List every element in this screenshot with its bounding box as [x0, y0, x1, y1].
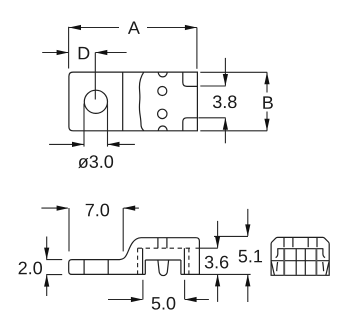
- label 3.8: [213, 95, 222, 108]
- dim ⌀3.0 arrowhead left: [72, 142, 84, 147]
- end view top tick 4: [316, 237, 318, 247]
- end view top tick 3: [307, 237, 309, 247]
- hole ⌀3.0 circle: [84, 90, 107, 113]
- dim ⌀3.0 leader left: [49, 143, 84, 145]
- side view notch edge tick 1: [157, 238, 159, 249]
- LABELS START: [19, 22, 273, 310]
- dim 3.6 arrowhead up: [215, 274, 220, 286]
- label D: [79, 47, 90, 59]
- end view right leg edge pair: [315, 249, 317, 276]
- dim 5.0 leader right: [185, 299, 209, 301]
- top view part outline: [69, 72, 198, 131]
- dim ⌀3.0 extension left: [83, 104, 85, 147]
- end view top tick 1: [283, 237, 285, 247]
- top edge notch arc: [158, 72, 167, 77]
- dim 7.0 left extension: [68, 208, 70, 251]
- dim 3.6 bottom extension: [200, 273, 251, 275]
- end view right foot arc: [326, 262, 329, 276]
- dim B bottom extension: [200, 130, 267, 132]
- dim 5.1 top arrow stem: [247, 209, 249, 236]
- side view outline: [69, 238, 200, 275]
- dim 3.8 bottom arrow stem: [224, 118, 226, 143]
- side view right leg outer edge: [183, 248, 185, 274]
- dim B arrowhead up: [264, 72, 269, 84]
- dim 3.6 top extension: [196, 247, 218, 249]
- label diameter 3.0: [78, 158, 88, 168]
- label A: [128, 22, 140, 34]
- dim 3.6 bottom arrow stem: [217, 275, 219, 302]
- end view right foot inner arc: [322, 262, 325, 271]
- dim 2.0 bottom arrow stem: [46, 275, 48, 296]
- dim 2.0 arrowhead up: [44, 275, 49, 287]
- hole center line: [94, 53, 96, 100]
- end view right hook: [323, 249, 325, 258]
- dim ⌀3.0 arrowhead right: [108, 142, 120, 147]
- dim B line upper: [266, 72, 268, 92]
- dim 7.0 leader left: [41, 207, 67, 209]
- dim 7.0 arrowhead right: [123, 206, 135, 211]
- dim A arrowhead left: [69, 25, 81, 30]
- dim D arrowhead right: [95, 50, 107, 55]
- side view hole edge tick 1: [83, 260, 85, 275]
- end view left hook: [276, 249, 278, 258]
- top view break line: [139, 72, 143, 131]
- dim ⌀3.0 leader right: [108, 143, 135, 145]
- side view hidden edge left: [137, 248, 139, 274]
- dim 5.0 right extension: [184, 280, 186, 300]
- end view tongue left edge: [295, 249, 297, 275]
- top view step edge line: [122, 72, 124, 131]
- dim D arrowhead left: [57, 50, 69, 55]
- label 5.0: [152, 297, 161, 310]
- side view plate underside hidden line: [138, 247, 192, 249]
- dim 7.0 right extension: [122, 208, 124, 251]
- small hole 2: [158, 109, 167, 118]
- dim 5.0 leader left: [108, 299, 142, 301]
- side view right leg inner edge: [180, 260, 182, 274]
- dim 2.0 arrowhead down: [44, 248, 49, 260]
- bottom edge notch arc: [158, 126, 167, 131]
- label B: [263, 96, 273, 108]
- side view notch edge tick 2: [166, 238, 168, 249]
- dim B line lower: [266, 112, 268, 131]
- dim B top extension: [200, 71, 267, 73]
- small hole 1: [158, 87, 167, 96]
- dim A line left segment: [69, 27, 119, 29]
- dim 5.1 arrowhead up: [245, 274, 250, 286]
- dim 5.0 left extension: [142, 280, 144, 300]
- dim 3.8 bottom extension: [198, 117, 225, 119]
- dim D leader left: [42, 52, 68, 54]
- dim 5.1 bottom arrow stem: [247, 275, 249, 302]
- label 2.0: [19, 262, 27, 275]
- dim 3.8 arrowhead down: [223, 74, 228, 86]
- dim 3.8 top extension: [200, 85, 225, 87]
- dim 7.0 arrowhead left: [57, 206, 69, 211]
- dim ⌀3.0 extension right: [107, 104, 109, 147]
- side view hole edge tick 2: [107, 260, 109, 275]
- dim D leader right: [95, 52, 126, 54]
- dim A arrowhead right: [185, 25, 197, 30]
- side view bar top edge behind legs: [145, 259, 181, 261]
- end view mid horizontal edge: [271, 260, 329, 262]
- dim 3.8 arrowhead up: [223, 118, 228, 130]
- label 5.1: [239, 250, 248, 263]
- dim 5.1 top extension: [214, 235, 248, 237]
- side view tongue: [158, 260, 169, 275]
- dim A left extension line: [68, 27, 70, 69]
- dim A line right segment: [147, 27, 197, 29]
- end view tongue right edge: [304, 249, 306, 275]
- dim 5.0 arrowhead left: [185, 297, 197, 302]
- end view left foot arc: [271, 262, 274, 276]
- dim 2.0 top arrow stem: [46, 237, 48, 260]
- end view left foot inner arc: [276, 262, 279, 271]
- end view left leg edge pair: [283, 249, 285, 276]
- side view left leg inner edge: [144, 260, 146, 274]
- dim 5.1 arrowhead down: [245, 224, 250, 236]
- end view top tick 2: [292, 237, 294, 247]
- dim 2.0 bottom extension: [46, 274, 62, 276]
- dim 3.6 top arrow stem: [217, 221, 219, 248]
- side view left leg outer edge: [142, 248, 144, 274]
- dim 3.6 arrowhead down: [215, 236, 220, 248]
- side view hidden edge right: [188, 248, 190, 274]
- dim A right extension line: [196, 28, 198, 69]
- dim B arrowhead down: [264, 119, 269, 131]
- dim 5.0 arrowhead right: [131, 297, 143, 302]
- dim 7.0 leader right: [124, 207, 139, 209]
- top-right corner notch: [183, 72, 198, 86]
- end view outline: [271, 237, 329, 275]
- label 3.6: [205, 256, 214, 269]
- label 7.0: [86, 204, 94, 216]
- dim 2.0 top extension: [46, 259, 62, 261]
- bottom-right corner notch: [183, 118, 198, 131]
- end view plate underside edge: [277, 248, 323, 250]
- dim 3.8 top arrow stem: [224, 58, 226, 86]
